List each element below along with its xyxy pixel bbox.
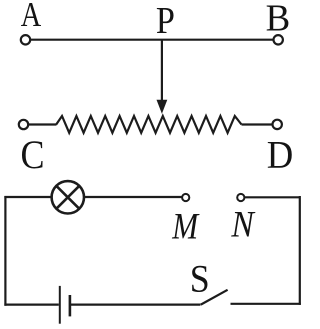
svg-text:A: A (21, 0, 41, 34)
svg-text:M: M (171, 207, 200, 247)
svg-text:D: D (267, 133, 293, 176)
svg-text:S: S (190, 258, 210, 301)
svg-text:C: C (21, 133, 45, 177)
svg-text:P: P (156, 0, 175, 41)
svg-text:N: N (230, 203, 256, 245)
svg-text:B: B (266, 0, 291, 39)
